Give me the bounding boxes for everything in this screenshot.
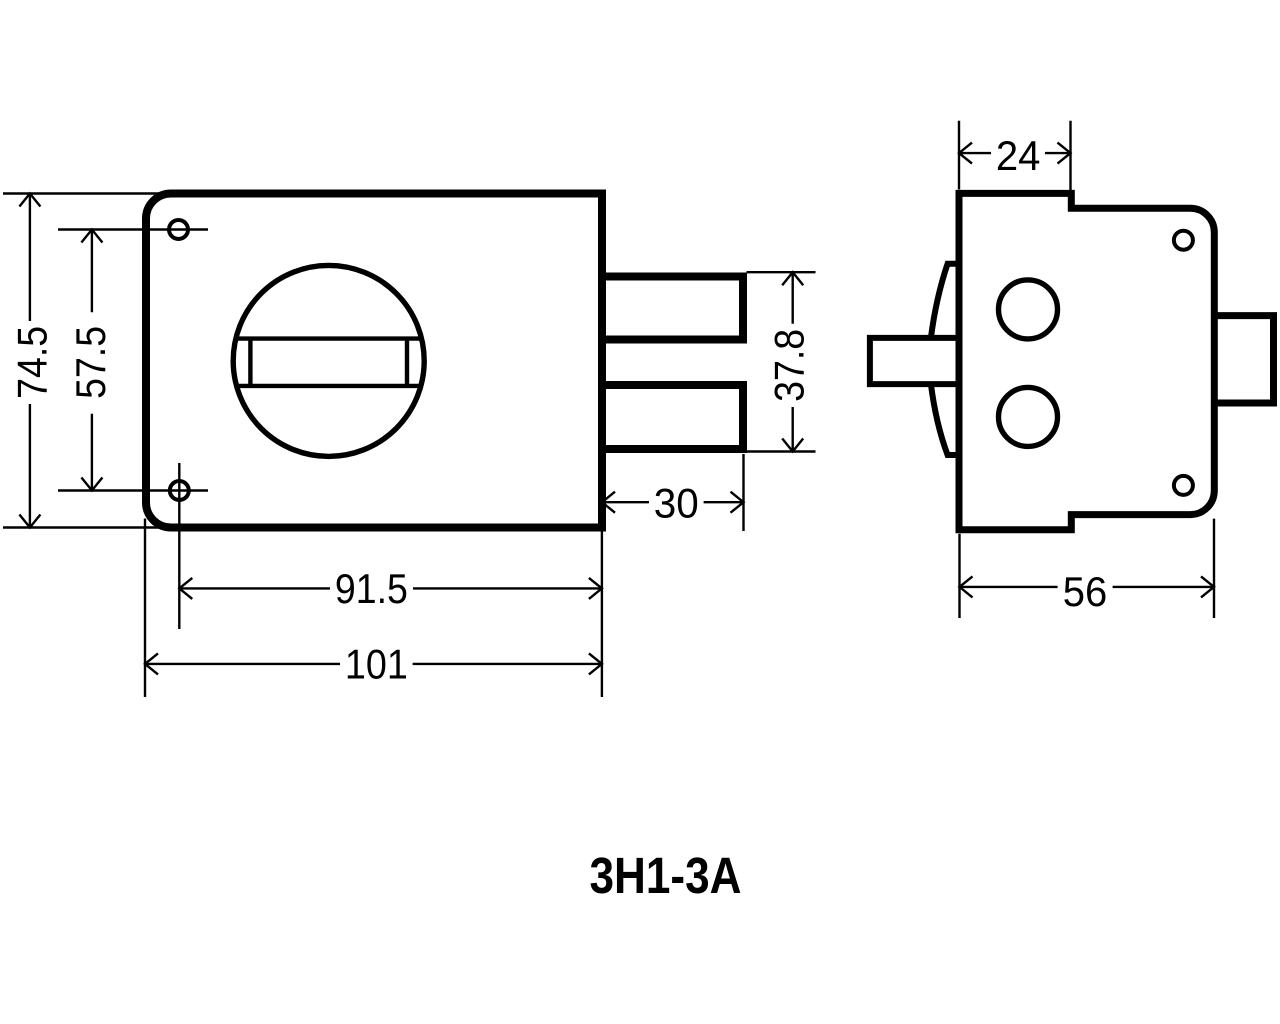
- extension line 74.5 top: [3, 192, 166, 194]
- dimension 37.8 line lower segment: [792, 407, 794, 452]
- extension line 56 right: [1213, 519, 1215, 618]
- dimension 56 line right segment: [1113, 586, 1214, 588]
- thumbturn slot upper chord: [236, 336, 422, 340]
- side view lower large hole: [999, 387, 1058, 446]
- dimension 57.5 line upper segment: [91, 230, 93, 313]
- arrow 91.5 left: [179, 578, 192, 599]
- arrow 24 left: [959, 143, 972, 164]
- dimension 101 line right segment: [413, 663, 602, 665]
- arrow 101 right: [589, 653, 602, 674]
- dimension 24 line right segment: [1045, 152, 1071, 154]
- extension line 24 right: [1069, 121, 1071, 205]
- arrow 57.5 down: [81, 478, 102, 491]
- dimension 91.5 line right segment: [413, 587, 602, 589]
- extension line 101 left: [144, 519, 146, 698]
- side view cylinder rose profile upper segment: [931, 264, 959, 338]
- dimension 101 line left segment: [145, 663, 340, 665]
- arrow 56 left: [960, 576, 973, 597]
- svg-text:56: 56: [1063, 568, 1108, 615]
- side view bottom screw hole: [1174, 476, 1193, 495]
- side view cylinder rose profile lower segment: [931, 384, 959, 455]
- extension line 37.8 top: [747, 271, 816, 273]
- extension line 30 right (below prong): [742, 454, 744, 531]
- dimension 37.8 line upper segment: [792, 272, 794, 324]
- front view lock body plate: [146, 194, 602, 528]
- arrow 56 right: [1201, 576, 1214, 597]
- extension line 57.5 bottom (through bottom screw hole): [58, 489, 208, 491]
- dimension 57.5 line lower segment: [91, 414, 93, 491]
- front bottom screw hole: [170, 481, 189, 500]
- arrow 30 left: [602, 492, 615, 513]
- arrow 37.8 down: [782, 439, 803, 452]
- dimension 74.5 line lower segment: [29, 404, 31, 528]
- dimension 56 line left segment: [960, 586, 1058, 588]
- arrow 74.5 down: [19, 515, 40, 528]
- svg-text:3H1-3A: 3H1-3A: [590, 847, 742, 904]
- dimension 24 line left segment: [959, 152, 991, 154]
- centerline bottom screw hole vertical: [178, 463, 180, 629]
- extension line 24 left: [958, 121, 960, 190]
- front top bolt prong: [602, 277, 743, 340]
- thumbturn bar right end: [405, 339, 409, 386]
- svg-text:91.5: 91.5: [335, 565, 408, 612]
- svg-text:30: 30: [654, 480, 699, 527]
- arrow 30 right: [731, 492, 744, 513]
- front thumbturn circle: [233, 265, 424, 456]
- dimension 30 line right segment: [704, 501, 744, 503]
- dimension 74.5 line upper segment: [29, 194, 31, 322]
- side view bolt stub right: [1214, 316, 1273, 403]
- front bottom bolt prong: [602, 385, 743, 449]
- svg-text:74.5: 74.5: [9, 326, 56, 399]
- extension line 37.8 bottom: [747, 450, 816, 452]
- arrow 37.8 up: [782, 272, 803, 285]
- arrow 101 left: [145, 653, 158, 674]
- extension line 57.5 top (through top screw hole): [58, 228, 208, 230]
- svg-text:101: 101: [345, 640, 408, 687]
- dimension 30 line left segment: [602, 501, 649, 503]
- extension line 56 left: [958, 534, 960, 618]
- extension line right edge of body downward: [601, 532, 603, 698]
- dimension 91.5 line left segment: [179, 587, 330, 589]
- side view lock body: [959, 193, 1214, 529]
- side view top screw hole: [1174, 231, 1193, 250]
- side view upper large hole: [999, 280, 1058, 339]
- side view spindle tab left: [870, 338, 959, 384]
- arrow 57.5 up: [81, 230, 102, 243]
- thumbturn bar left end: [248, 339, 252, 386]
- svg-text:37.8: 37.8: [766, 329, 813, 402]
- arrow 74.5 up: [19, 194, 40, 207]
- arrow 24 right: [1058, 143, 1071, 164]
- front top screw hole: [169, 220, 188, 239]
- extension line 74.5 bottom: [3, 526, 166, 528]
- svg-text:24: 24: [996, 132, 1041, 179]
- svg-text:57.5: 57.5: [67, 326, 114, 399]
- arrow 91.5 right: [589, 578, 602, 599]
- thumbturn slot lower chord: [237, 384, 421, 388]
